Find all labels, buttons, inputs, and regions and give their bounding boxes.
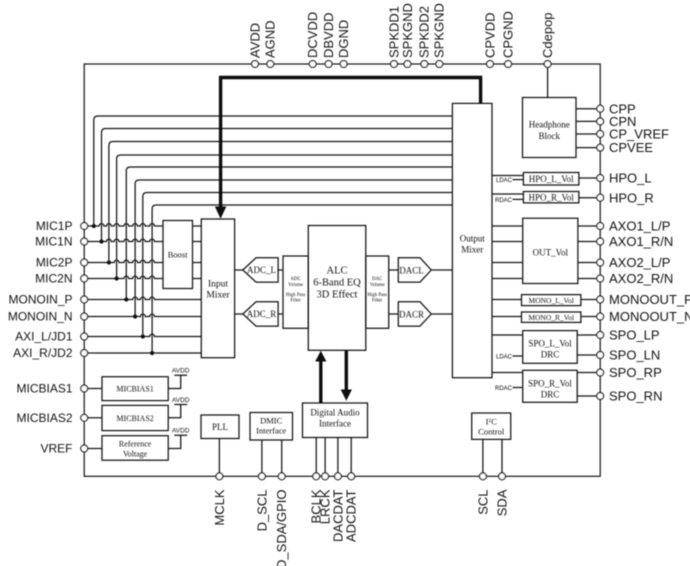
block I2C Control [472,413,511,439]
svg-text:AXI_L/JD1: AXI_L/JD1 [15,330,73,344]
label block DMIC Interface [256,416,286,436]
svg-text:MIC1N: MIC1N [35,235,72,249]
label power net AVDD (Reference Voltage) [172,428,190,435]
label pin CPGND [501,11,516,58]
wire Output Mixer to HPO_R_Vol [492,193,523,195]
label block Boost [168,250,188,260]
ADC_L converter (pentagon) [243,258,278,282]
svg-text:AXO1_R/N: AXO1_R/N [609,234,673,249]
svg-text:ADC_L: ADC_L [247,265,276,275]
label pin AXI_L/JD1 [15,330,73,344]
pin MICBIAS2 (left) [81,414,88,421]
wire Output Mixer feedback loop to Input Mixer (thick) [221,78,481,209]
pin CPVDD (top) [487,61,494,68]
block MONO_L_Vol [522,295,581,306]
wire Output Mixer to OUT_Vol ch1 [492,225,523,227]
svg-text:Control: Control [478,427,505,437]
label pin CPVEE [609,140,653,155]
power symbol AVDD for MICBIAS1 [168,375,187,388]
svg-text:AVDD: AVDD [172,368,190,375]
wire Boost to Input Mixer ch3 [193,262,202,264]
label pin BCLK [309,489,324,523]
wire Output Mixer to SPO_L_Vol [492,334,523,336]
svg-text:MIC2N: MIC2N [35,272,72,286]
pin MONOOUT_P (right) [597,296,604,303]
pin D_SDA/GPIO (bottom) [278,473,285,480]
wire MICBIAS2 pin to block [88,417,102,419]
svg-text:I2C: I2C [486,417,498,427]
wire riser AXI_L bypass with rounded elbow to bus [143,193,453,337]
wire OUT_Vol to AXO1_L/P pin [578,225,597,227]
svg-text:SPO_LP: SPO_LP [609,328,660,343]
svg-text:SPKGND: SPKGND [400,3,415,58]
pin MIC2N (left) [81,275,88,282]
pin MIC1N (left) [81,238,88,245]
wire I2C Control to SCL pin [482,439,484,473]
svg-text:High Pass: High Pass [286,293,305,298]
junction MIC1P riser dot [92,224,96,228]
wire Output Mixer to OUT_Vol ch4 [492,278,523,280]
pin SPKDD2 (top) [421,61,428,68]
wire ADC_L to ADC volume block [278,269,283,271]
label block ALC 6-Band EQ 3D Effect [313,265,361,300]
wire MICBIAS1 pin to block [88,388,102,390]
svg-text:AXI_R/JD2: AXI_R/JD2 [13,346,73,360]
svg-text:SPKDD2: SPKDD2 [417,6,432,58]
label pin Cdepop [540,12,555,58]
wire MONOIN_N input row with crossover hops [88,314,202,316]
block Digital Audio Interface [303,403,368,438]
svg-text:High Pass: High Pass [368,293,387,298]
label pin AXO1_L/P [609,219,670,234]
svg-text:SCL: SCL [475,490,490,515]
wire MIC2P input row with crossover hops [88,260,163,262]
wire Output Mixer to HPO_L_Vol [492,175,523,177]
label pin MCLK [212,489,227,525]
wire HPO_L_Vol to HPO_L pin [579,177,597,179]
svg-text:HPO_R: HPO_R [609,190,654,205]
svg-text:HPO_R_Vol: HPO_R_Vol [529,193,575,203]
label signal LDAC to HPO_L_Vol [496,178,513,184]
label block MONO_L_Vol [529,296,574,305]
wire MONO_R_Vol to MONOOUT_N pin [581,316,597,318]
label pin DCVDD [305,12,320,58]
label block MICBIAS1 [116,385,153,394]
wire HPO_R_Vol to HPO_R pin [579,197,597,199]
pin HPO_L (right) [597,175,604,182]
svg-text:AXO1_L/P: AXO1_L/P [609,219,670,234]
pin MONOIN_P (left) [81,296,88,303]
label pin LRCK [318,489,333,524]
wire Input Mixer to ADC_R [235,313,243,315]
label pin AXO2_R/N [609,271,673,286]
wire Boost to Input Mixer ch2 [193,241,202,243]
label pin MICBIAS1 [16,382,72,396]
svg-text:DCVDD: DCVDD [305,12,320,58]
block SPO_R_Vol DRC [523,370,578,402]
svg-text:DRC: DRC [541,389,560,399]
svg-text:MICBIAS1: MICBIAS1 [16,382,72,396]
svg-text:AXO2_R/N: AXO2_R/N [609,271,673,286]
svg-text:RDAC: RDAC [495,198,513,204]
label block Headphone Block [529,120,570,142]
svg-text:HPO_L: HPO_L [609,171,652,186]
junction AXI_L riser dot [141,334,145,338]
svg-text:3D Effect: 3D Effect [317,290,358,301]
block DMIC Interface [250,413,293,441]
svg-text:SPKGND: SPKGND [432,3,447,58]
svg-text:Interface: Interface [319,419,351,429]
wire OUT_Vol to AXO1_R/N pin [578,241,597,243]
label pin SPKDD1 [386,6,401,58]
label pin SDA [494,489,509,516]
block Output Mixer [452,103,492,377]
svg-text:MIC1P: MIC1P [36,219,73,233]
svg-text:Volume: Volume [288,283,303,288]
svg-text:SPO_L_Vol: SPO_L_Vol [528,339,572,349]
label block MONO_R_Vol [528,313,574,322]
wire RDAC into SPO_R_Vol [513,387,523,389]
label pin VREF [40,442,72,456]
svg-text:MICBIAS2: MICBIAS2 [16,411,72,425]
label block SPO_L_Vol DRC [528,339,572,360]
svg-text:VREF: VREF [40,442,72,456]
label block HPO_R_Vol [529,193,575,203]
block Reference Voltage [102,436,168,461]
DACL converter (pentagon) [398,258,431,282]
wire AXI_R/JD2 input row [88,352,202,354]
svg-text:DMIC: DMIC [260,416,283,426]
svg-text:ADC: ADC [291,277,301,282]
pin SCL (bottom) [480,473,487,480]
pin BCLK (bottom) [313,473,320,480]
label block MICBIAS2 [116,414,153,423]
label pin AGND [263,20,278,58]
pin MICBIAS1 (left) [81,385,88,392]
wire riser MONOIN_P bypass with rounded elbow to bus [126,167,452,300]
wire DMIC Interface to D_SDA/GPIO pin [281,440,283,473]
svg-text:D_SCL: D_SCL [254,490,269,532]
wire RDAC into HPO_R_Vol [513,198,524,200]
svg-text:AGND: AGND [263,20,278,58]
pin MIC1P (left) [81,223,88,230]
label pin DGND [336,20,351,58]
svg-text:Mixer: Mixer [461,245,483,255]
svg-text:Boost: Boost [168,250,188,260]
wire riser MIC1N bypass with rounded elbow to bus [102,129,453,242]
svg-text:Voltage: Voltage [123,450,148,459]
label pin MONOIN_P [8,293,72,307]
block MICBIAS1 [102,377,168,401]
label pin AXO2_L/P [609,255,670,270]
label pin MIC1N [35,235,72,249]
wire Digital Audio Interface to DACDAT pin [337,438,339,473]
pin CPN (right) [597,118,604,125]
label signal RDAC to HPO_R_Vol [495,198,513,204]
wire AXI_L/JD1 input row with crossover hop [88,334,202,336]
DACR converter (pentagon) [398,302,431,326]
block HPO_R_Vol [523,192,579,203]
wire MONOIN_P input row with crossover hops [88,297,202,299]
label signal RDAC to SPO_R_Vol [495,386,513,392]
arrowhead feedback into Input Mixer [215,207,226,219]
svg-text:ALC: ALC [327,265,348,276]
block ADC volume / high pass filter [283,256,308,328]
pin MIC2P (left) [81,259,88,266]
label DACR [399,310,424,320]
junction AXI_R riser dot [150,351,154,355]
svg-text:HPO_L_Vol: HPO_L_Vol [529,174,574,184]
label pin D_SDA/GPIO [274,490,289,566]
label pin SPO_LN [609,348,660,363]
wire VREF pin to Reference Voltage block [88,448,102,450]
wire Output Mixer to OUT_Vol ch2 [492,241,523,243]
svg-text:DAC: DAC [372,277,382,282]
junction MIC2P riser dot [107,260,111,264]
wire Headphone Block to CP_VREF [576,133,597,135]
junction MIC1N riser dot [99,239,103,243]
pin Cdepop (top) [544,61,551,68]
pin MCLK (bottom) [216,473,223,480]
pin AXO1_R/N (right) [597,238,604,245]
svg-text:OUT_Vol: OUT_Vol [533,248,569,258]
wire Output Mixer to MONO_R_Vol [492,316,522,318]
svg-text:Input: Input [208,280,228,290]
pin AXO2_R/N (right) [597,275,604,282]
label DAC volume / high pass filter text [368,277,387,304]
svg-text:MONOIN_N: MONOIN_N [8,310,73,324]
svg-text:SPO_LN: SPO_LN [609,348,660,363]
wire ADC_R to ADC volume block [278,313,283,315]
svg-text:MIC2P: MIC2P [36,256,73,270]
pin MONOIN_N (left) [81,313,88,320]
pin SPO_LP (right) [597,332,604,339]
label pin SPKGND2 [432,3,447,58]
pin DBVDD (top) [325,61,332,68]
label pin SPO_RN [609,389,662,404]
pin ADCDAT (bottom) [348,473,355,480]
svg-text:SPO_R_Vol: SPO_R_Vol [528,378,572,388]
wire LDAC into SPO_L_Vol [513,355,523,357]
pin AXI_L/JD1 (left) [81,333,88,340]
block SPO_L_Vol DRC [523,331,578,364]
pin AVDD (top) [252,61,259,68]
wire Boost to Input Mixer ch4 [193,278,202,280]
wire DAC volume block to DACR [389,313,399,315]
ADC_R converter (pentagon) [243,302,278,326]
wire OUT_Vol to AXO2_L/P pin [578,262,597,264]
label pin MONOIN_N [8,310,73,324]
block PLL [201,415,239,439]
svg-text:Digital Audio: Digital Audio [310,408,360,418]
wire DACL to Output Mixer [431,269,452,271]
pin DACDAT (bottom) [335,473,342,480]
svg-text:MONOIN_P: MONOIN_P [8,293,72,307]
pin SPO_LN (right) [597,352,604,359]
pin SPKDD1 (top) [391,61,398,68]
svg-text:MONO_R_Vol: MONO_R_Vol [528,313,574,322]
wire Digital Audio Interface to LRCK pin [324,438,326,473]
pin CPGND (top) [505,61,512,68]
label pin DBVDD [321,12,336,58]
pin CP_VREF (right) [597,131,604,138]
label pin MONOOUT_N [609,309,690,324]
svg-text:SDA: SDA [494,489,509,516]
svg-text:Block: Block [539,131,561,141]
label power net AVDD (MICBIAS2) [172,397,190,404]
junction MONOIN_P riser dot [124,297,128,301]
pin CPVEE (right) [597,144,604,151]
pin HPO_R (right) [597,194,604,201]
wire Headphone Block to CPVEE [576,147,597,149]
label pin CPN [609,114,636,129]
label block Output Mixer [460,234,486,255]
svg-text:D_SDA/GPIO: D_SDA/GPIO [274,490,289,566]
label block OUT_Vol [533,248,569,258]
label pin ADCDAT [344,489,359,542]
svg-text:SPO_RN: SPO_RN [609,389,662,404]
wire Input Mixer to ADC_L [235,269,243,271]
svg-text:Output: Output [460,234,486,244]
block DAC volume / high pass filter [366,256,389,328]
label pin HPO_R [609,190,654,205]
label pin CPVDD [482,12,497,58]
chip outline border [84,64,600,476]
label pin MIC1P [36,219,73,233]
pin MONOOUT_N (right) [597,313,604,320]
label pin SPO_LP [609,328,660,343]
svg-text:CPGND: CPGND [501,11,516,58]
svg-text:RDAC: RDAC [495,386,513,392]
wire Output Mixer to MONO_L_Vol [492,299,522,301]
svg-text:AVDD: AVDD [247,23,262,58]
label pin D_SCL [254,490,269,532]
wire riser MIC2N bypass with rounded elbow to bus [117,155,453,279]
wire MIC2N input row with crossover hops [88,276,163,278]
label pin SPO_RP [609,365,662,380]
label pin MIC2N [35,272,72,286]
wire SPO_R_Vol to SPO_RN pin [577,395,597,397]
pin SPO_RN (right) [597,393,604,400]
label ADC_R [247,309,277,319]
label block SPO_R_Vol DRC [528,378,572,399]
wire SPO_L_Vol to SPO_LP pin [577,334,597,336]
wire MONO_L_Vol to MONOOUT_P pin [581,299,597,301]
svg-text:MICBIAS1: MICBIAS1 [116,385,153,394]
pin D_SCL (bottom) [259,473,266,480]
wire Headphone Block to CPP [576,108,597,110]
svg-text:LDAC: LDAC [496,178,513,184]
pin DCVDD (top) [309,61,316,68]
block HPO_L_Vol [523,173,579,186]
wire Digital Audio Interface to ALC (thick down arrow) [341,351,352,401]
label block PLL [212,422,228,432]
junction MIC2N riser dot [115,276,119,280]
label pin MIC2P [36,256,73,270]
label pin MICBIAS2 [16,411,72,425]
svg-text:Interface: Interface [256,426,286,436]
svg-text:AVDD: AVDD [172,428,190,435]
wire Output Mixer to OUT_Vol ch3 [492,262,523,264]
wire ALC to Digital Audio Interface (thick up arrow) [315,351,326,403]
label ADC volume / high pass filter text [286,277,305,304]
label pin SCL [475,490,490,515]
svg-text:AVDD: AVDD [172,397,190,404]
pin AXI_R/JD2 (left) [81,350,88,357]
power symbol AVDD for Reference Voltage [168,435,187,448]
svg-text:6-Band EQ: 6-Band EQ [313,278,361,289]
svg-text:AXO2_L/P: AXO2_L/P [609,255,670,270]
label block Digital Audio Interface [310,408,360,429]
pin VREF (left) [81,445,88,452]
pin DGND (top) [340,61,347,68]
label pin AXO1_R/N [609,234,673,249]
svg-text:MICBIAS2: MICBIAS2 [116,414,153,423]
svg-text:DRC: DRC [541,350,560,360]
svg-text:MONOOUT_N: MONOOUT_N [609,309,690,324]
wire Boost to Input Mixer ch1 [193,225,202,227]
junction MONOIN_N riser dot [133,314,137,318]
block ALC 6-Band EQ 3D Effect [308,226,366,351]
svg-text:MONO_L_Vol: MONO_L_Vol [529,296,574,305]
svg-text:DBVDD: DBVDD [321,12,336,58]
svg-text:DACR: DACR [399,310,424,320]
pin AXO2_L/P (right) [597,259,604,266]
svg-text:CPVEE: CPVEE [609,140,653,155]
label pin SPKGND [400,3,415,58]
label block I2C Control [478,417,505,437]
label pin HPO_L [609,171,652,186]
wire SPO_R_Vol to SPO_RP pin [577,372,597,374]
svg-text:Reference: Reference [119,440,152,449]
pin SDA (bottom) [499,473,506,480]
wire DMIC Interface to D_SCL pin [261,440,263,473]
svg-text:MCLK: MCLK [212,489,227,525]
wire Output Mixer to SPO_R_Vol [492,372,523,374]
label block Reference Voltage [119,440,152,459]
svg-text:MONOOUT_P: MONOOUT_P [609,292,690,307]
block Headphone Block [523,98,577,158]
wire Cdepop to Headphone Block [547,68,549,98]
label pin CPP [609,101,636,116]
block OUT_Vol [523,218,578,283]
wire riser AXI_R bypass with rounded elbow to bus [152,205,452,353]
block Boost [163,221,193,289]
block Input Mixer [201,219,234,358]
svg-text:Headphone: Headphone [529,120,570,130]
wire MIC1P input row with crossover hops [88,224,163,226]
label pin CP_VREF [609,127,669,142]
label DACL [399,266,424,276]
pin SPO_RP (right) [597,369,604,376]
svg-text:DGND: DGND [336,20,351,58]
label signal LDAC to SPO_L_Vol [496,354,513,360]
label power net AVDD (MICBIAS1) [172,368,190,375]
wire PLL to MCLK pin [218,439,220,473]
wire riser MIC2P bypass with rounded elbow to bus [109,142,453,263]
block MONO_R_Vol [522,312,581,322]
wire DAC volume block to DACL [389,269,399,271]
wire Digital Audio Interface to BCLK pin [315,438,317,473]
power symbol AVDD for MICBIAS2 [168,405,187,418]
wire MIC1N input row with crossover hops [88,239,163,241]
label pin AVDD [247,23,262,58]
svg-text:Filter: Filter [290,299,301,304]
wire LDAC into HPO_L_Vol [513,179,524,181]
svg-text:Volume: Volume [370,283,385,288]
svg-text:CPVDD: CPVDD [482,12,497,58]
label pin AXI_R/JD2 [13,346,73,360]
